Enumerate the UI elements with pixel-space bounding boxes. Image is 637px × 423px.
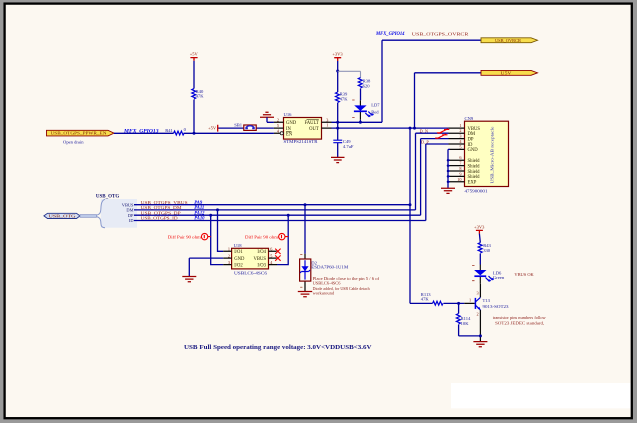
svg-text:1: 1 xyxy=(228,247,230,252)
pin stubs CN9 xyxy=(449,128,465,182)
wire CN9 DM riser xyxy=(415,133,417,210)
port USB_OTGPS_PPWR_EN xyxy=(47,130,115,136)
wire DP row xyxy=(134,214,421,216)
svg-text:9013-SOT23: 9013-SOT23 xyxy=(483,304,510,309)
port USB_OVRCR xyxy=(481,38,538,43)
note transistor pins xyxy=(493,315,547,327)
wire VBUS row xyxy=(134,204,410,206)
svg-text:8: 8 xyxy=(459,166,461,171)
diode D2 ESDA7P60-1U1M xyxy=(300,254,311,291)
wire CN9 shield bus xyxy=(448,149,450,188)
svg-text:LD7: LD7 xyxy=(371,103,380,108)
junction xyxy=(336,121,339,124)
svg-text:D_P: D_P xyxy=(421,140,429,145)
resistor R113 xyxy=(433,301,444,305)
svg-text:CN9: CN9 xyxy=(465,116,474,121)
svg-text:Diff Pair 90 ohm: Diff Pair 90 ohm xyxy=(168,234,202,239)
svg-text:USB_OTGPS_DM: USB_OTGPS_DM xyxy=(141,205,182,210)
junction emitter/R114 xyxy=(479,334,482,337)
svg-text:47K: 47K xyxy=(421,297,430,302)
svg-text:Shield: Shield xyxy=(468,175,481,180)
wire U18 pin4 branch xyxy=(277,215,288,264)
wire R39 vertical xyxy=(337,71,339,128)
pin stubs U18 xyxy=(223,251,277,264)
wire CN9 ID riser xyxy=(425,144,427,221)
svg-text:I/O2: I/O2 xyxy=(234,263,243,268)
svg-text:2: 2 xyxy=(477,312,479,317)
svg-text:USB_OTGPS_PPWR_EN: USB_OTGPS_PPWR_EN xyxy=(51,131,107,136)
svg-text:PA12: PA12 xyxy=(194,211,205,216)
svg-text:PA10: PA10 xyxy=(194,217,205,222)
blank white area bottom-right xyxy=(451,383,631,408)
harness bus line xyxy=(80,215,97,218)
junction xyxy=(336,70,339,73)
ground (U18) xyxy=(182,277,196,282)
junction xyxy=(359,121,362,124)
svg-text:10: 10 xyxy=(457,177,461,182)
junction DM/U18 xyxy=(216,208,219,211)
svg-text:Shield: Shield xyxy=(468,170,481,175)
svg-text:475900001: 475900001 xyxy=(465,189,489,194)
svg-text:U16: U16 xyxy=(284,112,293,117)
svg-text:DM: DM xyxy=(468,132,476,137)
wire CN9 DP row xyxy=(421,138,449,140)
no-ERC X pin 6 xyxy=(275,249,280,254)
svg-text:EXP: EXP xyxy=(468,181,477,186)
wire U5V branch xyxy=(415,73,482,128)
port U5V xyxy=(481,70,538,75)
connector CN9 USB Micro-AB xyxy=(465,116,509,194)
svg-text:U5V: U5V xyxy=(501,71,513,76)
svg-text:3: 3 xyxy=(326,117,328,122)
svg-text:DP: DP xyxy=(128,213,134,218)
ground (D2) xyxy=(298,292,312,297)
svg-text:FAULT: FAULT xyxy=(304,121,318,126)
diff pair marker (DM) xyxy=(437,129,449,134)
svg-text:USB_OTGPS_VBUS: USB_OTGPS_VBUS xyxy=(141,200,189,205)
svg-text:MFX_GPIO14: MFX_GPIO14 xyxy=(375,31,405,37)
wire DM row xyxy=(134,209,416,211)
svg-text:Green: Green xyxy=(493,275,505,280)
svg-text:Red: Red xyxy=(371,110,379,115)
diff pair marker (DP) xyxy=(435,134,447,139)
svg-text:PA9: PA9 xyxy=(194,201,203,206)
svg-text:IN: IN xyxy=(286,127,292,132)
pin EN bubble xyxy=(280,132,283,135)
svg-text:USB_OTG: USB_OTG xyxy=(49,215,76,219)
svg-text:transistor pins numbers follow: transistor pins numbers follow xyxy=(493,315,547,320)
ground (CN9 shield) xyxy=(441,188,455,193)
LED LD6 xyxy=(472,265,494,284)
svg-text:workaround: workaround xyxy=(313,291,335,296)
svg-text:2: 2 xyxy=(277,117,279,122)
junction DP/U18 pin4 xyxy=(287,214,290,217)
power +3V3 (U16 pull-ups) xyxy=(332,52,343,72)
resistor R43 xyxy=(478,243,482,253)
svg-text:GND: GND xyxy=(468,148,479,153)
svg-text:2: 2 xyxy=(459,128,461,133)
directive Diff Pair 90 ohm (right) xyxy=(245,233,288,239)
svg-text:+5V: +5V xyxy=(190,51,199,56)
ground (T13) xyxy=(473,342,487,347)
ground (U16 GND pin) xyxy=(260,112,274,122)
wire R40 vertical xyxy=(193,61,195,134)
svg-text:ESDA7P60-1U1M: ESDA7P60-1U1M xyxy=(311,265,348,270)
svg-text:USBLC6-4SC6: USBLC6-4SC6 xyxy=(234,271,268,276)
svg-text:USB_OTG: USB_OTG xyxy=(96,194,119,199)
svg-text:USB_OTGPS_ID: USB_OTGPS_ID xyxy=(141,216,178,221)
svg-text:GND: GND xyxy=(234,257,245,262)
svg-text:6: 6 xyxy=(270,247,272,252)
svg-text:620: 620 xyxy=(363,83,371,88)
svg-text:6: 6 xyxy=(459,155,461,160)
wire VBUS vertical to R113 xyxy=(409,128,411,303)
IC U18 USBLC6-4SC6 xyxy=(232,243,269,276)
resistor R41 xyxy=(174,131,184,135)
svg-text:VBUS OK: VBUS OK xyxy=(514,272,534,277)
wire EN row xyxy=(114,132,274,134)
svg-text:3: 3 xyxy=(459,134,461,139)
svg-text:SB1: SB1 xyxy=(234,122,243,127)
power +5V (top) xyxy=(190,51,199,60)
svg-text:STMPS2141STR: STMPS2141STR xyxy=(284,139,319,144)
svg-text:USB_OVRCR: USB_OVRCR xyxy=(495,38,521,43)
svg-text:DP: DP xyxy=(468,137,474,142)
wire IN row xyxy=(219,127,274,129)
svg-text:Shield: Shield xyxy=(468,159,481,164)
svg-text:USB_Micro-AB receptacle: USB_Micro-AB receptacle xyxy=(490,126,495,183)
wire U18 GND xyxy=(189,258,223,276)
svg-text:4.7uF: 4.7uF xyxy=(343,144,354,149)
wire CN9 DM row xyxy=(416,132,449,134)
power +3V3 (LD6) xyxy=(474,224,485,233)
svg-text:47K: 47K xyxy=(340,96,349,101)
svg-text:5: 5 xyxy=(270,253,272,258)
harness USB_OTG fill xyxy=(101,199,137,228)
svg-text:D_N: D_N xyxy=(420,128,429,133)
svg-text:DM: DM xyxy=(126,208,133,213)
svg-text:3: 3 xyxy=(228,260,230,265)
svg-text:VBUS: VBUS xyxy=(253,257,266,262)
directive Diff Pair 90 ohm (left) xyxy=(168,233,211,239)
junction xyxy=(409,127,412,130)
harness brace xyxy=(97,199,106,215)
svg-text:47K: 47K xyxy=(196,94,205,99)
svg-text:USB Full Speed operating range: USB Full Speed operating range voltage: … xyxy=(184,344,372,351)
junction VBUS vertical xyxy=(409,203,412,206)
svg-text:EN: EN xyxy=(286,133,293,138)
power +5V (IN pin) xyxy=(208,125,218,132)
svg-text:1: 1 xyxy=(469,298,471,303)
resistor R39 xyxy=(336,92,340,102)
junction xyxy=(336,127,339,130)
svg-text:330: 330 xyxy=(483,248,491,253)
svg-text:U18: U18 xyxy=(234,243,243,248)
junction DP/U18 xyxy=(209,214,212,217)
sheet-entry tag USB_OTG xyxy=(44,213,80,218)
svg-text:Diff Pair 90 ohm: Diff Pair 90 ohm xyxy=(245,234,279,239)
wire R38 branch xyxy=(338,71,361,77)
svg-text:7: 7 xyxy=(459,161,461,166)
wire OUT net (USB 5V rail) xyxy=(332,127,449,129)
svg-text:+5V: +5V xyxy=(208,126,217,131)
resistor R114 xyxy=(456,303,480,336)
wire U18 pin1 branch xyxy=(218,210,224,251)
capacitor C49 xyxy=(333,128,354,157)
svg-text:10K: 10K xyxy=(461,321,470,326)
junction xyxy=(413,127,416,130)
wire R113 row xyxy=(410,302,464,304)
svg-text:I/O1: I/O1 xyxy=(234,250,243,255)
junction xyxy=(193,132,196,135)
wire ID row xyxy=(134,220,426,222)
resistor R38 xyxy=(358,78,362,88)
wire FAULT net xyxy=(332,40,482,122)
svg-text:+3V3: +3V3 xyxy=(332,52,343,57)
junction R114 xyxy=(457,302,460,305)
transistor T13 xyxy=(464,284,509,342)
junctions shield bus xyxy=(447,159,450,162)
svg-text:1: 1 xyxy=(326,123,328,128)
svg-text:Shield: Shield xyxy=(468,164,481,169)
junction VBUS/D2 xyxy=(304,203,307,206)
solder bridge SB1 xyxy=(234,122,256,130)
svg-text:GND: GND xyxy=(286,121,297,126)
op-amp U16 STMPS2141STR power switch xyxy=(284,112,322,144)
svg-text:I/O3: I/O3 xyxy=(257,263,266,268)
svg-text:+3V3: +3V3 xyxy=(474,224,485,229)
svg-text:5: 5 xyxy=(459,144,461,149)
resistor R40 xyxy=(192,89,196,99)
wire CN9 DP riser xyxy=(420,139,422,216)
svg-text:PA11: PA11 xyxy=(194,206,204,211)
wire U18 pin3 branch xyxy=(211,215,224,264)
svg-text:OUT: OUT xyxy=(309,127,319,132)
LED LD7 xyxy=(352,100,374,122)
svg-text:R41: R41 xyxy=(165,128,173,133)
svg-text:T13: T13 xyxy=(483,298,491,303)
svg-text:I/O4: I/O4 xyxy=(257,250,266,255)
svg-text:USB_OTGPS_OVRCR: USB_OTGPS_OVRCR xyxy=(412,31,469,36)
svg-text:ID: ID xyxy=(468,143,474,148)
ground (C49) xyxy=(331,157,345,162)
svg-text:2: 2 xyxy=(228,253,230,258)
note Place Diode xyxy=(313,276,380,296)
wire CN9 ID row xyxy=(426,143,449,145)
svg-text:9: 9 xyxy=(459,171,461,176)
svg-text:ID: ID xyxy=(129,218,134,223)
svg-text:USB_OTGPS_DP: USB_OTGPS_DP xyxy=(141,210,182,215)
wire D2 branch xyxy=(304,205,306,254)
svg-text:3: 3 xyxy=(477,291,479,296)
wire R43 xyxy=(478,234,481,265)
no-ERC X pin 5 xyxy=(275,255,280,260)
pin stubs U16 xyxy=(274,122,332,133)
svg-text:Open drain: Open drain xyxy=(63,139,84,144)
